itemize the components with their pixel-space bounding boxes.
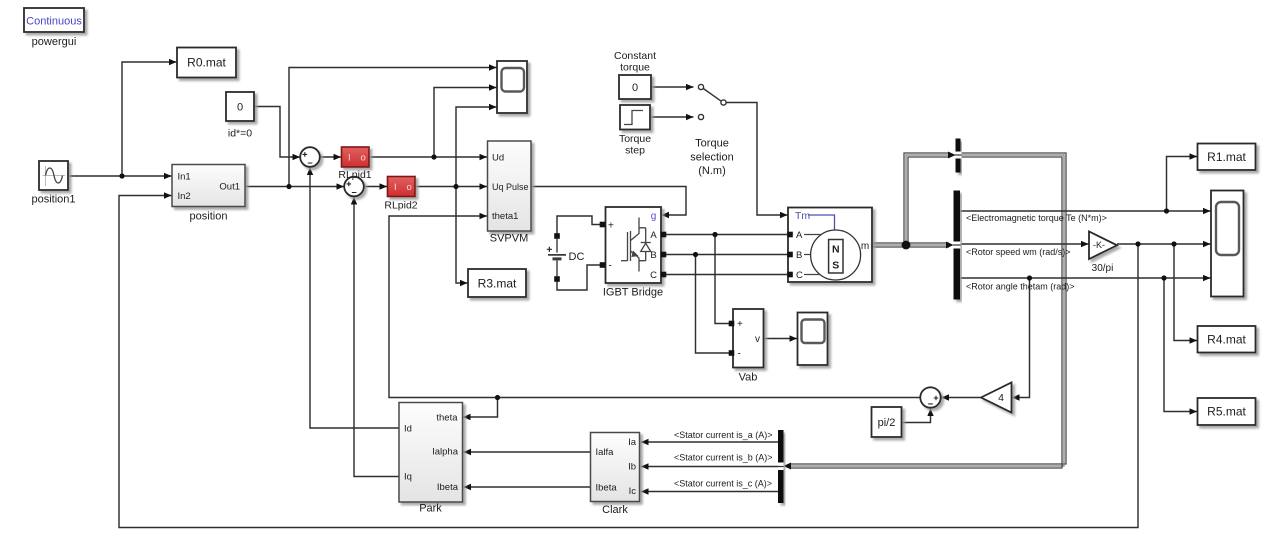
svg-text:<Stator current is_b (A)>: <Stator current is_b (A)> <box>674 452 773 462</box>
svg-text:<Rotor angle thetam (rad)>: <Rotor angle thetam (rad)> <box>966 282 1075 292</box>
svg-text:R4.mat: R4.mat <box>1207 333 1246 347</box>
svg-text:R3.mat: R3.mat <box>478 277 517 291</box>
svg-text:Constant: Constant <box>614 50 656 62</box>
svg-text:R0.mat: R0.mat <box>187 56 226 70</box>
svg-text:-K-: -K- <box>1093 240 1105 250</box>
svg-text:-: - <box>738 349 741 360</box>
svg-text:0: 0 <box>632 82 638 94</box>
svg-text:v: v <box>755 334 760 345</box>
svg-text:Tm: Tm <box>795 210 810 222</box>
svg-text:Continuous: Continuous <box>26 16 82 28</box>
svg-text:position: position <box>190 211 228 223</box>
svg-text:m: m <box>861 241 869 252</box>
svg-text:B: B <box>650 250 656 261</box>
svg-text:<Stator current is_c (A)>: <Stator current is_c (A)> <box>674 478 772 488</box>
svg-text:theta: theta <box>436 413 458 424</box>
svg-text:id*=0: id*=0 <box>228 128 252 140</box>
svg-text:pi/2: pi/2 <box>878 417 896 429</box>
svg-text:Vab: Vab <box>739 372 758 384</box>
svg-text:Iq: Iq <box>404 472 412 483</box>
svg-text:A: A <box>650 230 657 241</box>
svg-text:Park: Park <box>419 503 442 515</box>
svg-text:Ialfa: Ialfa <box>596 447 615 458</box>
svg-text:A: A <box>796 230 803 241</box>
svg-text:Uq: Uq <box>492 182 504 192</box>
svg-text:position1: position1 <box>31 194 75 206</box>
svg-text:C: C <box>650 270 657 281</box>
svg-text:(N.m): (N.m) <box>698 165 726 177</box>
svg-text:IGBT Bridge: IGBT Bridge <box>603 287 663 299</box>
svg-text:I: I <box>348 153 351 164</box>
svg-text:<Electromagnetic torque Te (N*: <Electromagnetic torque Te (N*m)> <box>966 213 1107 223</box>
svg-text:R5.mat: R5.mat <box>1207 405 1246 419</box>
svg-text:g: g <box>651 211 657 222</box>
svg-text:step: step <box>625 145 645 157</box>
svg-text:30/pi: 30/pi <box>1092 263 1114 274</box>
svg-text:I: I <box>394 182 397 193</box>
svg-text:Id: Id <box>404 424 412 435</box>
svg-text:Ibeta: Ibeta <box>596 483 618 494</box>
svg-text:Ia: Ia <box>628 437 637 448</box>
svg-text:B: B <box>796 250 802 261</box>
svg-text:DC: DC <box>569 251 585 263</box>
svg-text:<Rotor speed wm (rad/s)>: <Rotor speed wm (rad/s)> <box>966 247 1071 257</box>
svg-text:Torque: Torque <box>695 138 729 150</box>
svg-text:C: C <box>796 270 803 281</box>
svg-text:+: + <box>737 319 743 330</box>
svg-text:powergui: powergui <box>32 36 77 48</box>
svg-text:Ud: Ud <box>492 153 504 164</box>
svg-text:RLpid2: RLpid2 <box>384 200 417 212</box>
svg-text:o: o <box>361 153 366 164</box>
svg-text:In1: In1 <box>178 172 191 183</box>
svg-text:selection: selection <box>690 152 733 164</box>
svg-text:Ib: Ib <box>628 462 636 473</box>
svg-text:S: S <box>832 260 839 272</box>
svg-text:N: N <box>832 244 840 256</box>
svg-text:SVPVM: SVPVM <box>490 233 529 245</box>
svg-text:Ic: Ic <box>629 486 637 497</box>
svg-text:RLpid1: RLpid1 <box>338 169 371 181</box>
svg-text:-: - <box>609 261 612 272</box>
svg-text:In2: In2 <box>178 191 191 202</box>
svg-text:Ialpha: Ialpha <box>432 447 459 458</box>
svg-text:theta1: theta1 <box>492 211 518 222</box>
svg-text:Clark: Clark <box>602 504 628 516</box>
svg-text:R1.mat: R1.mat <box>1207 150 1246 164</box>
svg-text:o: o <box>407 182 412 193</box>
svg-text:Ibeta: Ibeta <box>437 482 459 493</box>
svg-text:Pulse: Pulse <box>506 182 529 192</box>
svg-text:torque: torque <box>620 62 650 74</box>
svg-text:4: 4 <box>998 392 1004 404</box>
svg-text:Torque: Torque <box>619 133 651 145</box>
svg-text:<Stator current is_a (A)>: <Stator current is_a (A)> <box>674 430 773 440</box>
svg-text:0: 0 <box>237 102 243 114</box>
svg-text:+: + <box>608 221 614 232</box>
svg-text:Out1: Out1 <box>219 182 240 193</box>
